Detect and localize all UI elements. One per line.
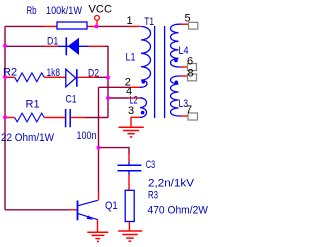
transformer core line left [154,26,156,118]
junction pin4 node [106,96,110,100]
resistor R1 22 Ohm/1W [15,113,45,122]
pin T1.4 [129,97,141,99]
svg-text:T1: T1 [144,16,154,28]
wire: C1 right to vertical bus [85,117,108,119]
ground Q1 emitter [87,232,108,241]
wire: top bus from left corner to Rb [5,25,44,27]
polarity dot L3 [175,81,179,85]
svg-text:7: 7 [186,104,192,116]
pin Rb left [44,25,57,27]
wire: D2 cathode to junction [98,76,109,78]
pin R3 bottom [128,222,130,231]
transformer T1 winding L2 [140,98,147,118]
svg-text:8: 8 [188,68,194,80]
pin T1.8 [181,75,188,77]
pad pin 7 [188,113,198,120]
svg-text:2,2n/1kV: 2,2n/1kV [148,178,195,190]
wire: pin4 horizontal from junction [108,97,129,99]
pin T1.2 [129,86,141,88]
svg-text:D2: D2 [88,68,99,80]
pin Q1 emitter to ground [97,219,99,232]
pin R2 right / D2 anode [44,76,65,78]
pad pin 5 [189,22,198,29]
pin T1.6 [181,66,188,68]
transformer core line right [164,26,166,118]
pin C3 bottom / R3 top [128,175,130,191]
pad pin 6 [188,64,197,71]
capacitor C3 2,2n/1kV [118,162,142,175]
junction D2 node [106,76,110,80]
wire: collector vertical down to Q1 [98,148,100,191]
wire: left vertical bus [4,26,6,209]
pin T1.7 [181,115,188,117]
transistor Q1 [78,200,98,220]
pin Rb right [87,25,97,27]
pin D2 cathode [77,76,98,78]
wire: D1 anode corner down to C1 line [105,46,109,117]
pin D1 anode [89,45,105,47]
junction VCC [95,24,99,28]
junction bus D1 [3,44,7,48]
diode D2 [66,69,77,87]
capacitor C1 100n [66,109,71,127]
svg-text:R2: R2 [3,67,17,79]
pin D1 cathode [44,45,58,47]
svg-text:VCC: VCC [89,4,113,16]
pin T1.3 to ground [131,117,142,127]
svg-text:5: 5 [185,13,191,25]
svg-text:100k/1W: 100k/1W [46,5,83,17]
svg-text:1k8: 1k8 [47,67,61,79]
resistor R2 1k8 [15,73,45,82]
svg-text:470 Ohm/2W: 470 Ohm/2W [148,205,209,217]
svg-text:C1: C1 [66,94,77,106]
pin R2 left [5,76,15,78]
svg-text:Q1: Q1 [105,200,118,212]
resistor Rb 100k/1W [57,22,87,29]
ground R3 bottom [118,231,142,241]
svg-text:L1: L1 [126,52,136,64]
svg-text:1: 1 [127,15,133,27]
transformer T1 winding L1 [140,27,151,88]
pin Q1 base [70,209,78,211]
pin Q1 collector [98,191,100,200]
transformer T1 winding L3 [171,76,182,116]
svg-text:3: 3 [128,105,134,117]
wire: bottom wire to Q1 base [5,209,70,211]
svg-text:Rb: Rb [27,5,37,17]
svg-text:C3: C3 [146,159,156,171]
svg-text:100n: 100n [77,130,97,142]
junction bus R1 [3,115,7,119]
svg-text:R1: R1 [26,99,40,111]
pad pin 8 [188,74,197,81]
wire: pin2 horizontal [99,86,129,88]
svg-text:R3: R3 [148,190,158,202]
wire: collector node to C3 corner [99,148,130,154]
polarity dot L2 [141,111,145,115]
junction collector node [97,146,101,150]
pin C3 top [128,154,130,162]
pin R1 right / C1 left [44,117,65,119]
svg-text:22 Ohm/1W: 22 Ohm/1W [1,132,55,144]
transformer T1 winding L4 [171,24,182,67]
junction bus R2 [3,75,7,79]
polarity dot L1 [142,80,146,84]
pin R1 left [5,117,15,119]
diode D1 [58,37,89,55]
pin T1.1 [129,25,141,27]
ground T1 pin3 [119,127,144,137]
svg-text:6: 6 [187,56,193,68]
wire: VCC junction to T1 pin 1 [97,25,130,27]
svg-text:D1: D1 [47,36,58,48]
pin C1 right [71,117,85,119]
resistor R3 470 Ohm/2W [125,190,134,221]
polarity dot L4 [174,59,178,63]
VCC terminal [95,16,100,27]
wire: D1 branch from bus [5,45,44,47]
wire: pin2 corner vertical down to collector node [98,87,100,147]
pin T1.5 [181,23,189,25]
